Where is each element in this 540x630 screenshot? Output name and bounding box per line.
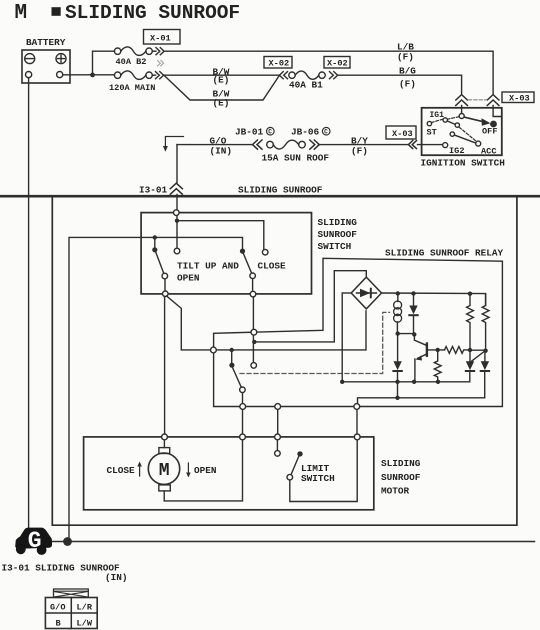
svg-text:M: M	[15, 2, 28, 25]
svg-text:B/G: B/G	[399, 66, 416, 77]
svg-text:SUNROOF: SUNROOF	[318, 229, 358, 240]
svg-text:JB-01: JB-01	[235, 127, 264, 138]
svg-text:BATTERY: BATTERY	[26, 37, 66, 48]
svg-text:40A B1: 40A B1	[289, 80, 323, 91]
svg-text:OPEN: OPEN	[194, 465, 217, 476]
svg-text:C: C	[268, 129, 272, 136]
svg-text:I3-01 SLIDING SUNROOF: I3-01 SLIDING SUNROOF	[2, 563, 121, 574]
svg-text:MOTOR: MOTOR	[381, 485, 410, 496]
svg-text:CLOSE: CLOSE	[107, 465, 136, 476]
svg-text:SWITCH: SWITCH	[318, 241, 352, 252]
svg-text:X-02: X-02	[327, 59, 348, 69]
svg-text:IG1: IG1	[430, 111, 445, 120]
svg-text:TILT UP AND: TILT UP AND	[177, 261, 239, 272]
svg-text:LIMIT: LIMIT	[301, 463, 330, 474]
svg-text:OFF: OFF	[482, 127, 497, 137]
svg-text:X-02: X-02	[269, 59, 290, 69]
svg-text:IGNITION SWITCH: IGNITION SWITCH	[421, 158, 505, 169]
svg-text:IG2: IG2	[449, 146, 464, 156]
svg-text:X-03: X-03	[509, 93, 530, 103]
svg-text:SLIDING SUNROOF: SLIDING SUNROOF	[238, 184, 323, 195]
svg-text:40A B2: 40A B2	[116, 57, 147, 67]
svg-text:SLIDING SUNROOF: SLIDING SUNROOF	[65, 2, 240, 24]
svg-text:G: G	[28, 528, 42, 554]
svg-text:(F): (F)	[397, 52, 414, 63]
svg-text:JB-06: JB-06	[291, 127, 320, 138]
svg-text:C: C	[324, 129, 328, 136]
svg-text:M: M	[159, 461, 170, 481]
svg-text:X-03: X-03	[392, 129, 413, 139]
svg-text:B: B	[56, 619, 61, 629]
svg-text:120A MAIN: 120A MAIN	[109, 83, 155, 93]
svg-text:X-01: X-01	[150, 34, 171, 44]
svg-text:L/R: L/R	[77, 603, 93, 613]
svg-text:SLIDING: SLIDING	[381, 458, 421, 469]
svg-text:(F): (F)	[399, 78, 416, 89]
svg-text:SLIDING: SLIDING	[318, 217, 358, 228]
svg-text:(IN): (IN)	[105, 572, 128, 583]
svg-text:(E): (E)	[213, 98, 230, 109]
svg-text:SUNROOF: SUNROOF	[381, 472, 421, 483]
svg-text:(F): (F)	[351, 145, 368, 156]
svg-text:15A SUN ROOF: 15A SUN ROOF	[262, 153, 330, 164]
svg-text:L/W: L/W	[77, 619, 93, 629]
svg-text:(E): (E)	[213, 74, 230, 85]
svg-text:ST: ST	[427, 128, 437, 138]
svg-text:(IN): (IN)	[210, 145, 233, 156]
svg-text:OPEN: OPEN	[177, 273, 200, 284]
svg-text:CLOSE: CLOSE	[258, 261, 287, 272]
svg-text:G/O: G/O	[50, 603, 65, 613]
svg-text:SLIDING SUNROOF RELAY: SLIDING SUNROOF RELAY	[385, 248, 504, 259]
svg-text:ACC: ACC	[481, 146, 496, 156]
svg-text:SWITCH: SWITCH	[301, 473, 335, 484]
svg-text:I3-01: I3-01	[139, 184, 168, 195]
